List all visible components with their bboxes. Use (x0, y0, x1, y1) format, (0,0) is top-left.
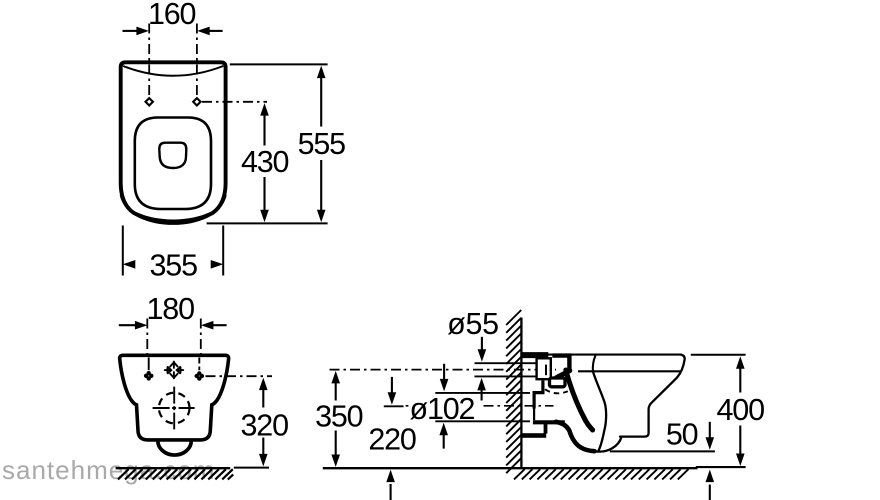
front view: right fixing marker (195, 371, 205, 381)
dim 320: line + arrows (262, 389, 264, 408)
svg-text:ø102: ø102 (410, 392, 475, 426)
side: mounting flange top (thick) (522, 352, 549, 358)
dim d102: top arrow (443, 364, 445, 380)
floor hatching (side view) (514, 469, 688, 479)
dim d102: bottom arrow (443, 434, 445, 448)
drain pipe d102 bottom edge (435, 420, 530, 422)
drain centerline left dot (406, 405, 409, 407)
front view: left fixing marker (144, 371, 154, 381)
top view: pan outline (121, 62, 226, 221)
side: inlet pipe end tick (545, 365, 547, 376)
side: lower housing thick bottom (533, 420, 565, 424)
dim 220: bottom arrow (390, 484, 392, 500)
drain centerline (484, 405, 554, 407)
extension line top right (555) (230, 63, 328, 65)
dim 355: arrows (123, 260, 136, 269)
top view: seat opening (135, 118, 211, 210)
side: bowl funnel front edge (593, 371, 606, 450)
dim d55: bottom arrow (481, 389, 483, 400)
dim 50: top arrow (709, 422, 711, 439)
dim 180: right arrow (212, 324, 227, 326)
top view: drain hole (159, 143, 186, 168)
side: hidden edge dashed arc (545, 389, 568, 393)
dim d55: top arrow (481, 337, 483, 351)
extension line bottom (430/555) (207, 222, 328, 224)
wall hatching (side view) (506, 310, 521, 473)
dim 400: top extension line (691, 354, 746, 356)
side: lower housing edge (533, 409, 535, 421)
dim 50: bottom arrow (709, 485, 711, 500)
ground hatching (front view) (118, 469, 233, 479)
side: trap bulge thin arc (596, 437, 622, 452)
front view: drain dashed circle (159, 393, 190, 424)
centerline left fixing (top view) (148, 24, 150, 99)
svg-text:220: 220 (368, 422, 416, 456)
front view: bowl outline (120, 355, 229, 440)
ground line (front view) (116, 467, 231, 469)
side: seat hinge edge (593, 356, 595, 371)
side: rim bottom line (578, 370, 681, 372)
centerline horizontal through fixings (top view) (202, 101, 267, 103)
centerline right fixing (front view) (200, 319, 202, 356)
fixing diamond left (top view) (146, 98, 153, 105)
front view: right fixing stub line (198, 358, 200, 371)
svg-text:ø55: ø55 (447, 307, 499, 341)
side: rear step outline (534, 381, 543, 409)
front view: drain crosshair vertical (153, 387, 195, 430)
dim 350: line + arrows (335, 382, 337, 401)
svg-text:320: 320 (241, 408, 289, 442)
dim 355: extension lines (122, 226, 124, 276)
centerline left fixing (front view) (146, 319, 148, 356)
wall face line (520, 318, 522, 469)
svg-text:160: 160 (148, 0, 196, 31)
side: seat buffer block (552, 356, 569, 371)
svg-text:430: 430 (241, 145, 289, 179)
front view: inlet position mark (165, 362, 183, 379)
dim 400: bottom extension line (696, 466, 746, 468)
centerline right fixing (top view) (196, 24, 198, 99)
svg-text:555: 555 (298, 127, 346, 161)
supply centerline (330, 369, 557, 371)
dim 180: left arrow (119, 324, 136, 326)
side: rim top line (522, 354, 681, 356)
supply pipe d55 top edge (475, 362, 540, 364)
svg-text:50: 50 (666, 418, 698, 452)
centerline horizontal from right fixing (front view) (206, 375, 273, 377)
fixing diamond right (top view) (193, 98, 200, 105)
svg-text:350: 350 (315, 400, 363, 434)
dim 430: line + arrows (263, 114, 265, 146)
top view: bottom rim thick arc (121, 195, 225, 223)
side: lower step edge (544, 424, 548, 434)
top view: rear rim arc (123, 66, 223, 76)
side: bowl inner wall thick S-curve (566, 370, 593, 430)
front view: left fixing stub line (148, 358, 150, 371)
floor line (side view) (323, 467, 698, 469)
dim 555: line + arrows (320, 76, 322, 127)
side: flush elbow outline box (550, 378, 566, 387)
svg-text:400: 400 (717, 393, 765, 427)
side: flush elbow thick diagonal (556, 371, 570, 378)
dim 400: line + arrows (739, 367, 741, 392)
dim 160: left arrow (123, 30, 138, 32)
side: bowl outer right profile (620, 355, 685, 437)
drain pipe d102 top edge (435, 392, 530, 394)
extension line ground right (320) (234, 467, 269, 469)
dim 50: extension line (bowl bottom) (610, 450, 715, 452)
supply pipe d55 bottom edge (475, 375, 540, 377)
svg-text:180: 180 (147, 292, 195, 326)
front view: drain crosshair horizontal (153, 407, 170, 409)
dim 220: extension line (384, 405, 404, 407)
side: bottom mounting flange (thick bar) (522, 433, 547, 438)
front view: bottom outlet bump (158, 441, 192, 455)
side: inlet housing box (537, 358, 551, 379)
dim 160: right arrow (208, 30, 222, 32)
dim 220: top arrow (391, 377, 393, 394)
side: trap bulge thick left part (556, 422, 595, 451)
svg-text:355: 355 (150, 248, 198, 282)
